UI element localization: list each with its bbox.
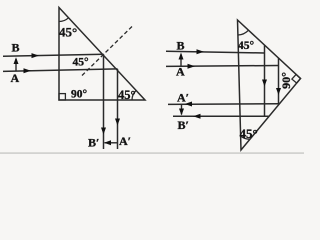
svg-text:45°: 45° [73,56,90,68]
svg-text:B′: B′ [178,118,189,132]
svg-text:45°: 45° [59,25,77,40]
svg-text:A′: A′ [119,134,131,148]
svg-text:90°: 90° [279,72,293,89]
svg-text:45°: 45° [238,40,255,52]
svg-text:B: B [12,41,20,55]
svg-text:90°: 90° [71,89,88,101]
svg-text:45°: 45° [240,126,258,141]
svg-text:B′: B′ [88,136,99,150]
svg-text:45°: 45° [118,88,136,102]
svg-text:A′: A′ [177,91,189,105]
svg-text:A: A [11,71,20,85]
svg-text:A: A [176,65,185,79]
svg-text:B: B [177,39,185,53]
